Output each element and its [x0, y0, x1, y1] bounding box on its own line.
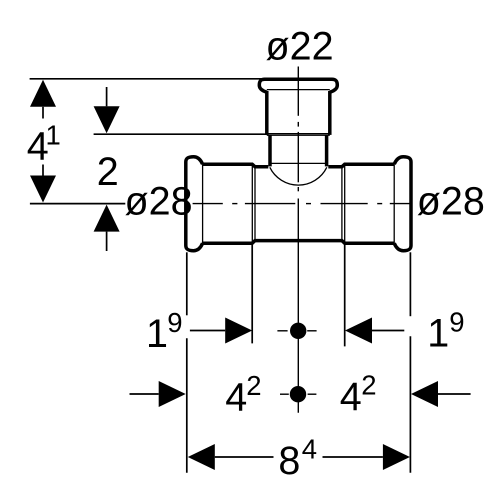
dimension line socket-depth level (2) [94, 133, 267, 135]
dim 4^2 left arrow right [159, 381, 186, 407]
dim 4^2 right arrow left [411, 381, 438, 407]
svg-text:4: 4 [340, 375, 362, 419]
svg-text:2: 2 [361, 370, 376, 401]
centerline horizontal (run axis) [193, 203, 412, 205]
svg-text:ø22: ø22 [266, 25, 334, 69]
run top outline with steps [203, 164, 269, 167]
branch socket depth double line [267, 133, 330, 135]
extension line right end [409, 252, 411, 316]
node dot lower [290, 386, 306, 402]
branch socket walls [265, 91, 269, 135]
dim 4^1 arrow up [30, 80, 56, 107]
dimension line top (branch end level) [30, 78, 262, 80]
extension line right socket step [344, 245, 346, 347]
crosshair dashes at node dots [277, 331, 316, 394]
extension line left end [186, 252, 188, 315]
dim 8^4 left arrow left [188, 444, 215, 470]
dim 8^4 right arrow right [383, 444, 410, 470]
dim 2 arrow down [94, 106, 120, 133]
dim 1^9 left arrow right [225, 318, 252, 344]
svg-text:4: 4 [225, 376, 247, 420]
branch lower tube walls [268, 135, 272, 167]
left socket depth double vertical [251, 165, 253, 243]
left socket bead [186, 157, 203, 251]
svg-text:9: 9 [449, 307, 464, 338]
junction hidden run-top thin line [269, 162, 328, 164]
branch bead underside thin line [267, 89, 330, 91]
right socket bead [394, 157, 411, 251]
svg-text:4: 4 [302, 433, 317, 464]
left bead-tube thin line [202, 164, 204, 243]
junction saddle arc [270, 167, 327, 185]
svg-text:1: 1 [46, 119, 61, 150]
svg-text:8: 8 [278, 439, 300, 483]
svg-text:1: 1 [146, 312, 168, 356]
dim 4^1 arrow down [30, 176, 56, 203]
dimension line run-axis level left [30, 203, 125, 205]
run bottom outline with steps [203, 241, 395, 244]
fitting outline: branch socket bead top [259, 79, 337, 92]
dim 1^9 right arrow left [345, 318, 372, 344]
dim 2 arrow up [94, 205, 120, 232]
node dot upper [290, 323, 306, 339]
right socket depth double vertical [341, 167, 343, 241]
extension line left socket step [251, 245, 253, 344]
svg-text:ø28: ø28 [125, 180, 193, 224]
centerline vertical (branch axis) [297, 67, 299, 413]
svg-text:1: 1 [427, 312, 449, 356]
svg-text:9: 9 [167, 307, 182, 338]
svg-text:ø28: ø28 [417, 179, 485, 223]
svg-text:2: 2 [246, 370, 261, 401]
svg-text:2: 2 [97, 150, 119, 194]
right bead-tube thin line [393, 164, 395, 243]
